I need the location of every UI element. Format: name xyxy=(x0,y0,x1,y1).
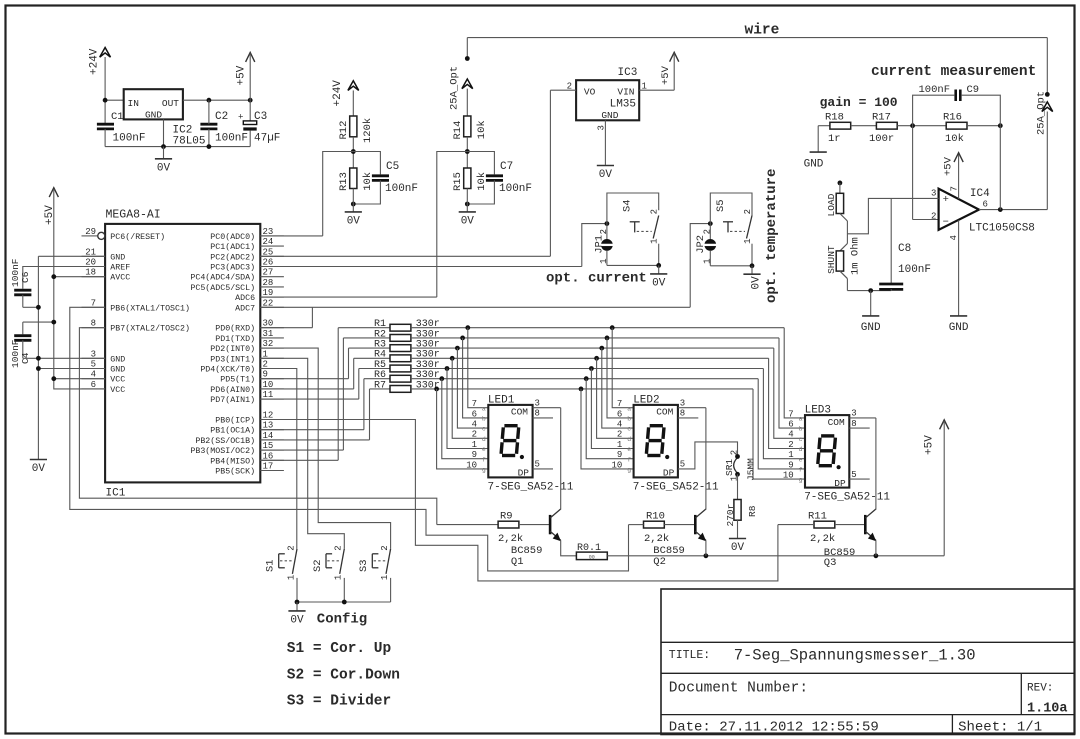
pin 7 IC4 V+ xyxy=(950,154,960,199)
svg-text:1: 1 xyxy=(702,258,712,263)
wire PD3 to S2 xyxy=(260,358,344,549)
node R3 to LED1 xyxy=(455,346,460,351)
label current measurement xyxy=(871,64,1036,80)
svg-text:7: 7 xyxy=(617,399,622,409)
wire ADC6 to divider2 xyxy=(260,296,437,298)
svg-text:6: 6 xyxy=(617,409,622,419)
node R6 to LED1 xyxy=(439,376,444,381)
node R6 to LED2 xyxy=(584,376,589,381)
resistor R5 xyxy=(359,360,764,399)
capacitor C2 xyxy=(200,100,248,146)
7-segment display LED2 xyxy=(611,395,677,479)
svg-text:270r: 270r xyxy=(725,504,736,527)
capacitor C3 (electrolytic 47uF) xyxy=(238,100,280,146)
node GND/C4/pin3 xyxy=(36,356,41,361)
svg-text:9: 9 xyxy=(788,460,793,470)
svg-text:8: 8 xyxy=(680,409,685,419)
node divider1 bottom xyxy=(351,202,356,207)
ground 0V (JP1) xyxy=(650,265,667,289)
temperature sensor IC3 LM35 xyxy=(576,67,639,121)
svg-text:a: a xyxy=(799,416,803,423)
svg-text:R11: R11 xyxy=(808,510,827,522)
supply +5V (LM35) xyxy=(660,52,679,90)
pin 3 LED2 COM xyxy=(678,399,706,409)
svg-text:c: c xyxy=(627,426,631,433)
op-amp IC4 LTC1050CS8 xyxy=(931,188,1035,234)
svg-text:6: 6 xyxy=(472,409,477,419)
svg-text:2: 2 xyxy=(380,545,390,550)
svg-text:PB0(ICP): PB0(ICP) xyxy=(215,416,255,426)
svg-text:COM: COM xyxy=(656,407,673,418)
svg-text:−: − xyxy=(943,217,949,229)
svg-text:Date: 27.11.2012 12:55:59: Date: 27.11.2012 12:55:59 xyxy=(669,719,879,735)
node R16/C9/output xyxy=(998,123,1003,128)
node +24V/C1/IN junction xyxy=(103,98,108,103)
wire IC2 OUT to C2 C3 +5V xyxy=(183,99,250,101)
svg-text:J5MM: J5MM xyxy=(746,458,757,481)
ground 0V (divider1) xyxy=(345,189,362,228)
wire segment f to LED2 pin xyxy=(586,379,633,459)
wire PB1 to R6 xyxy=(260,429,364,431)
svg-text:PD0(RXD): PD0(RXD) xyxy=(215,324,255,334)
node R1 to LED2 xyxy=(610,325,615,330)
ground 0V (JP2) xyxy=(743,266,762,290)
node +5V/C4 xyxy=(51,320,56,325)
svg-text:S1 = Cor. Up: S1 = Cor. Up xyxy=(287,641,392,657)
svg-text:COM: COM xyxy=(511,407,528,418)
title block frame xyxy=(661,589,1075,735)
wire segment b to LED2 pin xyxy=(607,338,634,418)
capacitor C1 xyxy=(97,111,146,147)
node R7 to LED1 xyxy=(434,387,439,392)
wire PD6 to R4 xyxy=(260,388,353,390)
wire R14 to R15 node xyxy=(466,137,468,168)
svg-text:PD2(INT0): PD2(INT0) xyxy=(210,344,255,354)
voltage regulator IC2 78L05 xyxy=(124,89,206,147)
svg-text:+5V: +5V xyxy=(660,65,672,85)
node wire end left xyxy=(465,56,470,61)
svg-text:1.10a: 1.10a xyxy=(1027,701,1068,716)
wire segment a to LED3 pin xyxy=(784,328,805,418)
pin 8 LED1 xyxy=(533,409,553,419)
node R2 to LED2 xyxy=(605,336,610,341)
resistor SHUNT xyxy=(826,245,844,274)
svg-text:d: d xyxy=(799,446,803,453)
ground 0V (LM35) xyxy=(597,166,614,182)
supply +24V (PSU) xyxy=(89,48,111,76)
svg-text:ADC6: ADC6 xyxy=(235,294,255,303)
resistor R14 xyxy=(452,116,488,140)
label S3 legend xyxy=(287,693,391,709)
svg-text:C9: C9 xyxy=(967,84,980,96)
node divider2 bottom xyxy=(465,202,470,207)
svg-text:g: g xyxy=(799,477,803,484)
resistor R9 xyxy=(437,510,550,545)
svg-text:a: a xyxy=(482,405,486,412)
wire switch ground rail xyxy=(297,601,391,603)
node divider2 midpoint xyxy=(465,149,470,154)
wire PD4 to S1 xyxy=(260,369,297,549)
wire PB6 to R10 xyxy=(70,307,629,571)
svg-text:GND: GND xyxy=(110,366,125,375)
node R1 to LED1 xyxy=(465,325,470,330)
pin 4 IC4 V- xyxy=(949,220,959,316)
wire PB3 to R2 xyxy=(260,449,343,451)
node R7 to LED2 xyxy=(579,387,584,392)
wire +24V to IC2 IN and C1 xyxy=(105,57,124,124)
svg-text:GND: GND xyxy=(145,110,162,121)
svg-text:1: 1 xyxy=(472,440,477,450)
svg-text:3: 3 xyxy=(931,189,936,199)
wire segment g to LED1 pin xyxy=(437,389,489,469)
label opt. current xyxy=(546,271,647,287)
supply +24V (divider) xyxy=(332,80,359,107)
ground 0V (config) xyxy=(288,602,305,626)
transistor Q3 BC859 xyxy=(824,509,876,569)
svg-text:0V: 0V xyxy=(347,215,361,227)
svg-text:REV:: REV: xyxy=(1027,683,1053,695)
wire PC3 to JP1 xyxy=(260,266,582,268)
switch S2 xyxy=(312,545,345,602)
ground 0V (divider2) xyxy=(459,189,476,228)
svg-text:c: c xyxy=(799,436,803,443)
svg-text:DP: DP xyxy=(663,468,675,479)
svg-text:0V: 0V xyxy=(157,162,171,174)
svg-text:SR1: SR1 xyxy=(724,459,735,476)
node rail/C2 junction xyxy=(207,144,212,149)
svg-text:5: 5 xyxy=(851,470,856,480)
wire PSU ground rail xyxy=(105,119,250,146)
wire Q2 emitter to rail xyxy=(705,540,707,556)
svg-text:120k: 120k xyxy=(362,118,374,143)
svg-text:OUT: OUT xyxy=(162,98,179,109)
supply 25A_Opt (output) xyxy=(1036,91,1053,210)
svg-text:PD5(T1): PD5(T1) xyxy=(220,375,255,385)
svg-text:R9: R9 xyxy=(500,510,513,522)
wire divider2 tap to ADC6 xyxy=(437,152,468,298)
svg-text:b: b xyxy=(482,416,486,423)
svg-text:8: 8 xyxy=(851,419,856,429)
switch S4 xyxy=(622,199,660,265)
svg-text:GND: GND xyxy=(949,322,969,334)
svg-text:ADC7: ADC7 xyxy=(235,304,255,313)
svg-text:PC1(ADC1): PC1(ADC1) xyxy=(210,242,255,252)
svg-text:R15: R15 xyxy=(452,172,464,191)
wire LM35 VO to PC2 xyxy=(549,90,551,256)
resistor R11 xyxy=(778,510,865,545)
pin 5 LED1 DP xyxy=(533,460,553,470)
svg-text:PB7(XTAL2/TOSC2): PB7(XTAL2/TOSC2) xyxy=(110,324,190,334)
wire segment a to LED1 pin xyxy=(468,328,489,408)
svg-text:Q2: Q2 xyxy=(653,556,666,568)
wire LED3 COM to Q3 collector xyxy=(875,418,877,510)
svg-text:PC4(ADC4/SDA): PC4(ADC4/SDA) xyxy=(190,273,255,283)
svg-text:27: 27 xyxy=(263,268,274,278)
node Q3 emitter on rail xyxy=(874,553,879,558)
svg-text:2,2k: 2,2k xyxy=(810,533,835,545)
svg-text:Document Number:: Document Number: xyxy=(669,681,808,697)
wire emitter rail to +5V xyxy=(607,555,944,557)
wire LED1 COM to Q1 collector xyxy=(560,408,562,510)
svg-text:100nF: 100nF xyxy=(385,183,418,195)
svg-text:10: 10 xyxy=(466,460,477,470)
svg-text:VO: VO xyxy=(584,87,596,98)
svg-text:+5V: +5V xyxy=(942,156,954,176)
node LOAD top xyxy=(838,181,843,186)
svg-text:COM: COM xyxy=(828,417,845,428)
svg-text:f: f xyxy=(482,456,486,463)
supply +5V (IC4) xyxy=(942,153,963,176)
svg-text:PD6(AIN0): PD6(AIN0) xyxy=(210,385,255,395)
label 7-SEG_SA52-11 (LED1) xyxy=(488,481,574,493)
wire PB0 to R11 xyxy=(260,420,778,581)
svg-text:Sheet: 1/1: Sheet: 1/1 xyxy=(958,719,1042,735)
wire inverting input xyxy=(913,126,939,220)
svg-text:0V: 0V xyxy=(731,542,745,554)
node JP2/S5 ground xyxy=(750,263,755,268)
svg-text:0V: 0V xyxy=(750,276,762,290)
wire segment d to LED1 pin xyxy=(452,358,488,438)
IC1 left pins with numbers and names xyxy=(82,227,190,395)
supply +5V (displays) xyxy=(924,420,949,556)
wire PB4 to R1 xyxy=(260,459,338,461)
svg-text:b: b xyxy=(627,416,631,423)
wire segment f to LED3 pin xyxy=(758,379,805,469)
switch S5 xyxy=(715,199,753,265)
svg-text:e: e xyxy=(627,446,631,453)
svg-text:0V: 0V xyxy=(652,277,666,289)
ground GND (IC4) xyxy=(949,316,969,334)
wire ADC7/PD0 to JP2 xyxy=(260,307,690,327)
7-segment display LED1 xyxy=(466,395,532,479)
svg-text:R16: R16 xyxy=(943,112,962,124)
wire R12 to R13 node xyxy=(352,137,354,168)
svg-text:28: 28 xyxy=(263,278,274,288)
svg-text:e: e xyxy=(799,456,803,463)
svg-text:C7: C7 xyxy=(500,161,513,173)
wire PC2 to LM35 xyxy=(260,255,550,257)
svg-text:S4: S4 xyxy=(622,199,634,212)
wire feedback riser xyxy=(999,126,1001,210)
wire PC3 riser to JP1 xyxy=(582,224,607,267)
wire segment d to LED2 pin xyxy=(597,358,634,438)
wire net 25A_Opt top rail xyxy=(467,38,1047,95)
svg-text:R8: R8 xyxy=(747,505,758,517)
node R17/R16/C9/inverting xyxy=(910,123,915,128)
label gain = 100 xyxy=(820,95,898,110)
svg-text:MEGA8-AI: MEGA8-AI xyxy=(106,209,161,222)
svg-text:+: + xyxy=(238,113,243,123)
pin 8 LED3 xyxy=(849,419,869,429)
svg-text:1: 1 xyxy=(334,575,344,580)
capacitor C5 xyxy=(353,152,418,205)
svg-text:g: g xyxy=(627,467,631,474)
wire R17 to R16 xyxy=(897,125,946,127)
svg-text:2,2k: 2,2k xyxy=(498,533,523,545)
svg-text:R12: R12 xyxy=(338,121,350,140)
svg-text:R10: R10 xyxy=(646,510,665,522)
svg-text:R17: R17 xyxy=(872,112,891,124)
svg-text:C8: C8 xyxy=(898,243,911,255)
pin 2 IC3 VO xyxy=(550,82,576,92)
svg-text:b: b xyxy=(799,426,803,433)
svg-text:LTC1050CS8: LTC1050CS8 xyxy=(969,222,1035,234)
label 7-SEG_SA52-11 (LED3) xyxy=(804,492,890,504)
svg-text:Q3: Q3 xyxy=(824,557,837,569)
svg-text:3: 3 xyxy=(680,399,685,409)
wire +24V to R12 xyxy=(352,90,354,116)
svg-text:4: 4 xyxy=(472,420,477,430)
svg-text:GND: GND xyxy=(804,159,824,171)
svg-text:0V: 0V xyxy=(461,215,475,227)
svg-text:2: 2 xyxy=(617,430,622,440)
pin 1 IC3 VIN xyxy=(639,82,674,92)
title block TITLE row xyxy=(669,646,976,664)
svg-text:PC3(ADC3): PC3(ADC3) xyxy=(210,263,255,273)
svg-text:g: g xyxy=(482,467,486,474)
node JP1 pin2 junction xyxy=(605,221,610,226)
pin 8 LED2 xyxy=(678,409,698,419)
svg-text:S3 = Divider: S3 = Divider xyxy=(287,693,391,709)
svg-text:DP: DP xyxy=(518,468,530,479)
svg-text:+: + xyxy=(943,194,949,206)
wire JP2 top rail to S5 xyxy=(710,193,752,224)
node S2 rail xyxy=(342,600,347,605)
solder jumper SR1 J5MM xyxy=(724,450,757,481)
svg-text:current measurement: current measurement xyxy=(871,64,1036,80)
svg-text:LM35: LM35 xyxy=(610,99,636,111)
svg-text:d: d xyxy=(482,436,486,443)
svg-text:IN: IN xyxy=(128,98,139,109)
wire PD5 to R3 xyxy=(260,378,348,380)
svg-text:00: 00 xyxy=(589,554,595,560)
svg-text:C1: C1 xyxy=(111,111,124,123)
wire JP2 bottom rail xyxy=(710,265,752,267)
node S1 rail xyxy=(295,600,300,605)
svg-text:C4: C4 xyxy=(20,352,31,364)
svg-text:2: 2 xyxy=(931,211,936,221)
resistor R10 xyxy=(629,510,696,545)
node OUT/C3/+5V junction xyxy=(248,98,253,103)
svg-text:R7: R7 xyxy=(374,380,386,391)
svg-text:2: 2 xyxy=(743,209,753,214)
svg-text:opt. current: opt. current xyxy=(546,271,647,287)
pin 5 LED3 DP xyxy=(849,470,869,480)
svg-text:C6: C6 xyxy=(20,271,31,283)
svg-text:f: f xyxy=(627,456,631,463)
svg-text:PD3(INT1): PD3(INT1) xyxy=(210,354,255,364)
svg-text:25A_Opt: 25A_Opt xyxy=(1036,91,1048,135)
svg-text:PC0(ADC0): PC0(ADC0) xyxy=(210,232,255,242)
node sense-/GND xyxy=(868,288,873,293)
svg-text:C5: C5 xyxy=(386,161,399,173)
svg-text:10: 10 xyxy=(783,471,794,481)
svg-text:IC3: IC3 xyxy=(618,67,638,79)
svg-text:10k: 10k xyxy=(476,120,488,139)
jumper JP2 xyxy=(695,224,718,266)
svg-text:AREF: AREF xyxy=(110,264,130,273)
svg-text:LOAD: LOAD xyxy=(826,193,837,216)
svg-text:DP: DP xyxy=(834,478,846,489)
svg-text:GND: GND xyxy=(110,253,125,262)
wire segment g to LED3 pin xyxy=(753,389,805,479)
wire LED2 COM to Q2 collector xyxy=(705,408,707,510)
svg-text:c: c xyxy=(482,426,486,433)
label 7-SEG_SA52-11 (LED2) xyxy=(633,481,719,493)
svg-text:6: 6 xyxy=(788,420,793,430)
wire segment e to LED3 pin xyxy=(763,369,805,459)
ground 0V (IC1 GND rail) xyxy=(30,460,47,476)
wire segment a to LED2 pin xyxy=(612,328,633,408)
wire ADC7 riser to JP2 xyxy=(690,224,710,308)
resistor R4 xyxy=(354,350,769,389)
svg-text:2: 2 xyxy=(472,430,477,440)
svg-text:JP1: JP1 xyxy=(594,235,606,254)
wire PD2 to S3 xyxy=(260,348,390,549)
svg-text:31: 31 xyxy=(263,329,274,339)
node output/feedback xyxy=(998,207,1003,212)
IC1 right pins with numbers and names xyxy=(190,227,284,477)
svg-text:IC4: IC4 xyxy=(970,188,990,200)
svg-text:2: 2 xyxy=(788,440,793,450)
svg-text:7: 7 xyxy=(950,186,960,191)
svg-text:10k: 10k xyxy=(945,133,964,145)
connector LOAD xyxy=(826,183,844,217)
svg-text:2: 2 xyxy=(702,229,712,234)
svg-text:S5: S5 xyxy=(715,199,727,212)
svg-text:PC2(ADC2): PC2(ADC2) xyxy=(210,252,255,262)
capacitor C6 xyxy=(10,258,31,307)
node R5 to LED2 xyxy=(589,366,594,371)
svg-text:4: 4 xyxy=(949,235,959,240)
node Q2 emitter on rail xyxy=(704,553,709,558)
svg-text:PB5(SCK): PB5(SCK) xyxy=(215,467,255,477)
node SR1 pin2 xyxy=(735,454,740,459)
resistor R2 xyxy=(343,329,779,450)
resistor R18 xyxy=(818,112,851,145)
svg-text:0V: 0V xyxy=(599,169,613,181)
svg-text:100r: 100r xyxy=(869,133,894,145)
net label wire xyxy=(745,23,780,39)
wire Q1 emitter to R0.1 xyxy=(561,540,577,556)
svg-text:7-SEG_SA52-11: 7-SEG_SA52-11 xyxy=(804,492,890,504)
wire Q3 emitter to rail xyxy=(875,540,877,556)
svg-text:29: 29 xyxy=(85,227,96,237)
wire segment e to LED2 pin xyxy=(591,369,633,449)
ground 0V (R8) xyxy=(729,539,746,555)
svg-text:R14: R14 xyxy=(452,121,464,140)
label Config xyxy=(317,612,367,628)
svg-text:PB1(OC1A): PB1(OC1A) xyxy=(210,426,255,436)
ground GND (shunt) xyxy=(861,291,881,334)
svg-text:100nF: 100nF xyxy=(113,133,146,145)
node +5V/VCC4 xyxy=(51,376,56,381)
svg-text:25A_Opt: 25A_Opt xyxy=(449,66,461,110)
svg-text:+5V: +5V xyxy=(236,65,248,85)
svg-text:+24V: +24V xyxy=(332,80,344,107)
microcontroller IC1 MEGA8-AI xyxy=(105,209,260,500)
svg-text:S3: S3 xyxy=(358,559,370,572)
svg-text:f: f xyxy=(799,467,803,474)
svg-text:2: 2 xyxy=(599,229,609,234)
resistor R17 xyxy=(851,112,898,145)
transistor Q1 BC859 xyxy=(511,509,561,568)
svg-text:S1: S1 xyxy=(265,559,277,572)
node OUT/C2 junction xyxy=(207,98,212,103)
node R5 to LED1 xyxy=(445,366,450,371)
supply 25A_Opt (divider) xyxy=(449,66,473,110)
title block document row xyxy=(669,681,1054,697)
